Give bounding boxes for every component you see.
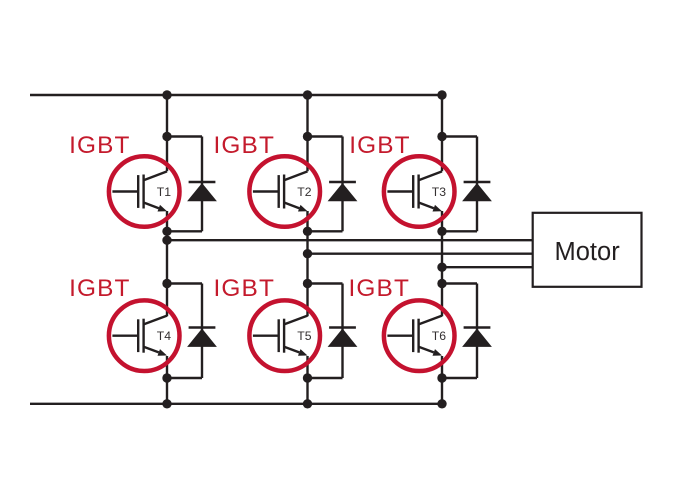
svg-text:IGBT: IGBT xyxy=(69,275,131,302)
wire phase W output to motor xyxy=(442,266,534,268)
svg-text:IGBT: IGBT xyxy=(214,275,276,302)
svg-text:IGBT: IGBT xyxy=(349,132,411,159)
node phase W tap xyxy=(437,263,446,272)
node upper diode split leg 1 xyxy=(162,132,171,141)
transistor T1 (upper IGBT) xyxy=(109,156,180,227)
node lower diode split leg 1 xyxy=(162,279,171,288)
node lower diode rejoin leg 2 xyxy=(303,373,312,382)
node upper diode split leg 2 xyxy=(303,132,312,141)
svg-text:T4: T4 xyxy=(157,329,171,343)
wire phase V output to motor xyxy=(308,252,535,254)
diode D1 (freewheel, upper leg 1) xyxy=(167,137,217,232)
svg-text:T2: T2 xyxy=(297,185,311,199)
wire bottom DC- bus xyxy=(30,403,442,405)
transistor T4 (lower IGBT) xyxy=(109,300,180,371)
node upper diode split leg 3 xyxy=(437,132,446,141)
node top bus junction leg 1 xyxy=(162,90,171,99)
diode D5 (freewheel, lower leg 2) xyxy=(308,284,358,379)
wire phase U output to motor xyxy=(167,239,534,241)
diode D4 (freewheel, lower leg 1) xyxy=(167,284,217,379)
node bottom bus junction leg 2 xyxy=(303,399,312,408)
node bottom bus junction leg 3 xyxy=(437,399,446,408)
node upper diode rejoin leg 2 xyxy=(303,227,312,236)
wire leg 1 midpoint vertical xyxy=(166,211,168,316)
svg-text:T6: T6 xyxy=(432,329,446,343)
diode D6 (freewheel, lower leg 3) xyxy=(442,284,492,379)
svg-text:T5: T5 xyxy=(297,329,311,343)
node upper diode rejoin leg 3 xyxy=(437,227,446,236)
svg-text:IGBT: IGBT xyxy=(214,132,276,159)
wire leg 2 collector drop from top bus xyxy=(306,95,308,171)
motor block M xyxy=(533,213,642,287)
diode D3 (freewheel, upper leg 3) xyxy=(442,137,492,232)
node lower diode rejoin leg 1 xyxy=(162,373,171,382)
wire leg 3 midpoint vertical xyxy=(441,211,443,316)
node bottom bus junction leg 1 xyxy=(162,399,171,408)
svg-text:T1: T1 xyxy=(157,185,171,199)
wire leg 1 collector drop from top bus xyxy=(166,95,168,171)
svg-text:IGBT: IGBT xyxy=(69,132,131,159)
transistor T2 (upper IGBT) xyxy=(249,156,320,227)
wire leg 3 collector drop from top bus xyxy=(441,95,443,171)
node phase U tap xyxy=(162,236,171,245)
node lower diode rejoin leg 3 xyxy=(437,373,446,382)
node top bus junction leg 3 xyxy=(437,90,446,99)
svg-text:IGBT: IGBT xyxy=(349,275,411,302)
wire top DC+ bus xyxy=(30,94,442,96)
transistor T5 (lower IGBT) xyxy=(249,300,320,371)
node lower diode split leg 3 xyxy=(437,279,446,288)
transistor T6 (lower IGBT) xyxy=(384,300,455,371)
diode D2 (freewheel, upper leg 2) xyxy=(308,137,358,232)
wire leg 2 emitter drop to bottom bus xyxy=(306,356,308,404)
node upper diode rejoin leg 1 xyxy=(162,227,171,236)
wire leg 1 emitter drop to bottom bus xyxy=(166,356,168,404)
node phase V tap xyxy=(303,249,312,258)
transistor T3 (upper IGBT) xyxy=(384,156,455,227)
node top bus junction leg 2 xyxy=(303,90,312,99)
svg-text:T3: T3 xyxy=(432,185,446,199)
node lower diode split leg 2 xyxy=(303,279,312,288)
wire leg 3 emitter drop to bottom bus xyxy=(441,356,443,404)
svg-text:Motor: Motor xyxy=(555,238,621,266)
wire leg 2 midpoint vertical xyxy=(306,211,308,316)
